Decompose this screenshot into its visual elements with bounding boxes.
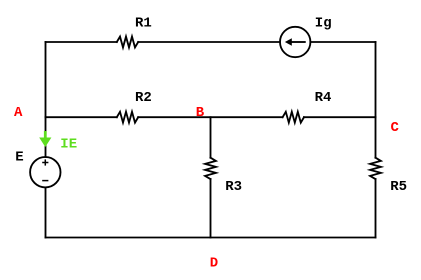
wire R3 to bottom [210, 179, 212, 237]
wire top middle segment [138, 41, 280, 43]
wire top left segment [46, 41, 117, 43]
svg-text:A: A [14, 105, 23, 121]
svg-text:D: D [210, 255, 218, 271]
resistor R3 [205, 158, 216, 179]
resistor R4 [283, 112, 304, 123]
Ig arrowhead [285, 38, 292, 46]
svg-text:R4: R4 [315, 90, 332, 106]
wire A down to E source [45, 117, 47, 157]
wire bottom [46, 237, 376, 239]
wire middle B segment [138, 116, 282, 118]
resistor R1 [117, 37, 138, 48]
voltage source E [30, 157, 60, 187]
wire right vertical upper (top-right corner to C) [375, 42, 377, 117]
E source minus sign [42, 180, 48, 182]
wire top right segment [310, 41, 375, 43]
svg-text:IE: IE [60, 136, 77, 152]
wire left vertical top (A to top-left corner) [45, 42, 47, 117]
current source Ig [280, 27, 310, 57]
svg-text:Ig: Ig [315, 15, 332, 31]
wire R5 to bottom [375, 179, 377, 237]
resistor R2 [117, 112, 138, 123]
svg-text:R1: R1 [135, 15, 152, 31]
current arrow IE (green) head [39, 138, 51, 148]
wire B down to R3 [210, 117, 212, 158]
E source plus sign [42, 159, 48, 165]
resistor R5 [370, 158, 381, 179]
svg-text:R3: R3 [225, 179, 242, 195]
svg-text:R2: R2 [135, 90, 152, 106]
wire E source to bottom [45, 187, 47, 237]
current arrow IE (green) stem [44, 131, 47, 139]
wire middle right (R4 to C) [304, 116, 376, 118]
wire middle left (A to R2) [46, 116, 117, 118]
svg-text:C: C [391, 120, 400, 136]
Ig arrow line [291, 41, 305, 43]
svg-text:E: E [15, 149, 23, 165]
wire C down to R5 [375, 117, 377, 158]
svg-text:B: B [196, 105, 205, 121]
svg-text:R5: R5 [390, 179, 407, 195]
